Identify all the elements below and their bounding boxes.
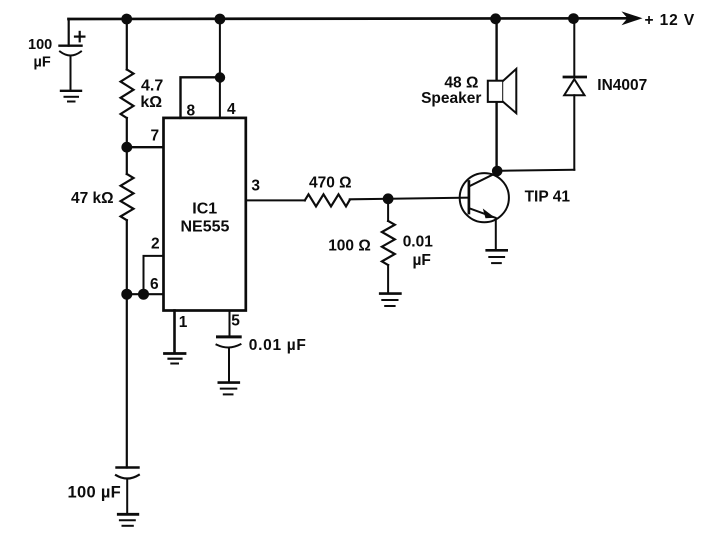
- svg-text:Speaker: Speaker: [421, 90, 481, 107]
- svg-text:0.01: 0.01: [403, 234, 434, 251]
- svg-text:470 Ω: 470 Ω: [309, 175, 352, 192]
- svg-text:kΩ: kΩ: [140, 94, 162, 111]
- svg-text:5: 5: [231, 313, 240, 330]
- svg-text:8: 8: [187, 103, 196, 120]
- svg-text:100 µF: 100 µF: [68, 484, 122, 502]
- svg-text:TIP 41: TIP 41: [525, 188, 571, 205]
- svg-text:IC1: IC1: [192, 201, 217, 218]
- svg-text:47 kΩ: 47 kΩ: [71, 190, 114, 207]
- svg-text:100 Ω: 100 Ω: [328, 237, 371, 254]
- svg-text:7: 7: [151, 128, 160, 145]
- svg-text:1: 1: [179, 314, 188, 331]
- svg-text:0.01 µF: 0.01 µF: [249, 337, 307, 354]
- svg-text:4: 4: [227, 101, 236, 118]
- svg-text:3: 3: [251, 178, 260, 195]
- svg-text:+ 12 V: + 12 V: [645, 12, 696, 29]
- svg-text:µF: µF: [34, 55, 51, 71]
- svg-text:2: 2: [151, 236, 160, 253]
- svg-text:NE555: NE555: [181, 219, 230, 236]
- svg-text:IN4007: IN4007: [597, 77, 647, 94]
- svg-text:100: 100: [28, 37, 52, 53]
- svg-text:4.7: 4.7: [141, 77, 163, 94]
- svg-text:6: 6: [150, 276, 159, 293]
- svg-text:µF: µF: [413, 252, 431, 269]
